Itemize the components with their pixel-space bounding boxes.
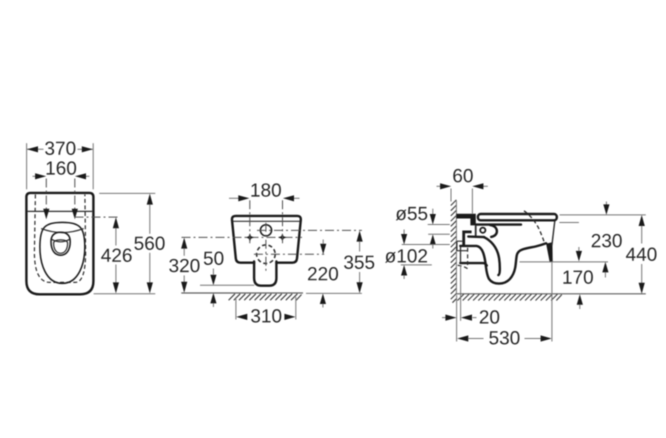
dim 170 bottom arrow xyxy=(577,294,583,305)
hinge bracket left edge xyxy=(475,226,477,237)
dim 180 text xyxy=(251,183,281,196)
dim 20 text xyxy=(480,310,499,323)
o102 reference lines xyxy=(402,244,450,246)
dim 220 text xyxy=(308,267,338,280)
dim 230 bottom arrow xyxy=(578,247,580,251)
dim 220 arrow bottom xyxy=(320,294,326,305)
pan body outline xyxy=(26,193,93,294)
rear body outline xyxy=(232,216,301,263)
plate seam line xyxy=(28,210,93,212)
trap boot xyxy=(254,262,276,286)
dim 170 text xyxy=(563,270,593,283)
dim 20 line arrows xyxy=(442,317,446,319)
dim 180 ext dash-dot left xyxy=(249,200,251,243)
trap bottom extension line xyxy=(200,284,254,286)
dim 355 line xyxy=(357,231,363,242)
dim 370 text xyxy=(45,142,75,155)
dim 220 arrows top xyxy=(322,240,324,244)
dim 370 line and arrows xyxy=(27,148,43,150)
bowl underside sweep xyxy=(460,243,546,283)
dim 50 arrows xyxy=(212,269,214,275)
dim 426 line xyxy=(113,217,119,228)
dim 230 text xyxy=(592,234,622,247)
bowl innermost shape xyxy=(54,240,68,253)
front rim wedge xyxy=(546,242,553,262)
seat outer outline xyxy=(40,222,85,283)
dim 60 ext lines xyxy=(450,189,452,202)
rear seam line xyxy=(233,220,301,222)
dim 180 ext dash-dot right xyxy=(282,200,284,243)
front face line xyxy=(552,221,555,246)
hidden rim dashed curve xyxy=(524,211,545,244)
floor hatch middle view xyxy=(229,294,302,300)
top extension line for 560 xyxy=(99,192,155,194)
dim 530 text xyxy=(489,331,519,344)
bowl inner band xyxy=(52,239,70,242)
hinge circle xyxy=(480,228,485,233)
dim 310 text xyxy=(251,309,281,322)
trap channel inner wall xyxy=(484,237,500,275)
floor line side view xyxy=(456,293,645,295)
fixing cross right xyxy=(278,233,286,241)
hidden trap dashed curve xyxy=(458,265,468,268)
o55 arrows xyxy=(432,209,434,214)
fixing cross left xyxy=(246,233,254,241)
seat top extension line A xyxy=(560,214,646,216)
dim 530 right ext line xyxy=(551,263,553,342)
dim 370 extension lines xyxy=(26,143,28,189)
dim 60 line arrows xyxy=(437,185,442,187)
seat front wavy line xyxy=(41,229,83,233)
dim 160 extension dash-dot right xyxy=(74,179,76,211)
o102 axis dash-dot to 220 dim xyxy=(254,253,324,255)
fixing axis dash-dot xyxy=(182,236,303,238)
wall face line xyxy=(455,201,457,294)
outlet circle o102 dashed xyxy=(257,245,276,264)
dim 180 line and arrows xyxy=(229,197,239,199)
dim 440 text xyxy=(626,248,657,261)
o102 arrows xyxy=(403,230,405,235)
wall hatch xyxy=(451,200,457,303)
bottom extension line for 426/560 xyxy=(94,293,156,295)
dim 310 line arrows xyxy=(236,314,247,320)
dim o102 text xyxy=(385,249,427,263)
hinge bracket right rounded end xyxy=(490,225,497,237)
hidden pipe dashed vertical xyxy=(467,248,469,265)
seat bottom extension line B xyxy=(559,222,579,224)
dim 230 top arrow xyxy=(605,202,607,205)
o55 axis dash-dot to 355 dim xyxy=(257,229,362,231)
dim 320 text xyxy=(169,259,199,272)
dim o55 text xyxy=(396,207,428,220)
fixing C bracket xyxy=(462,231,471,246)
dim 440 line xyxy=(639,215,645,226)
hidden body edge dashed xyxy=(34,195,85,283)
dim 530 line arrows xyxy=(457,335,468,341)
dim 160 extension dash-dot left xyxy=(45,179,47,211)
fixing axis dash-dot to 426 dim xyxy=(75,216,120,218)
pipe end cap and pan back line xyxy=(460,246,462,263)
dim 170 top arrow xyxy=(602,262,608,273)
supply box behind wall xyxy=(457,241,467,251)
dim 20 ext lines xyxy=(456,295,458,342)
outlet spigot bottom edge xyxy=(460,263,487,266)
ceramic top edge under seat xyxy=(476,223,521,225)
dim 426 text xyxy=(101,249,131,262)
o55 reference lines xyxy=(428,224,450,226)
inlet circle o55 xyxy=(260,225,271,236)
fixing point arrow left xyxy=(43,209,49,220)
seat profile xyxy=(478,214,557,220)
bowl inner egg xyxy=(51,232,70,255)
dim 50 text xyxy=(204,252,224,265)
rim underside extension line C xyxy=(520,261,609,263)
dim 310 ext lines xyxy=(235,297,237,320)
dim 160 line and arrows xyxy=(33,175,37,177)
hinge bracket bottom edge xyxy=(468,235,484,238)
dim 160 text xyxy=(47,161,77,174)
dim 560 line xyxy=(147,194,153,205)
dim 320 line xyxy=(181,238,187,249)
dim 60 text xyxy=(453,169,472,182)
dim 355 text xyxy=(344,256,374,269)
fixing point arrow right xyxy=(72,209,78,220)
floor line middle view xyxy=(181,292,303,294)
floor extension right of middle view xyxy=(306,292,362,294)
dim 560 text xyxy=(134,237,164,250)
inlet elbow filled xyxy=(456,214,475,226)
center vertical dash-dot xyxy=(265,223,267,272)
floor hatch side view xyxy=(458,294,562,300)
